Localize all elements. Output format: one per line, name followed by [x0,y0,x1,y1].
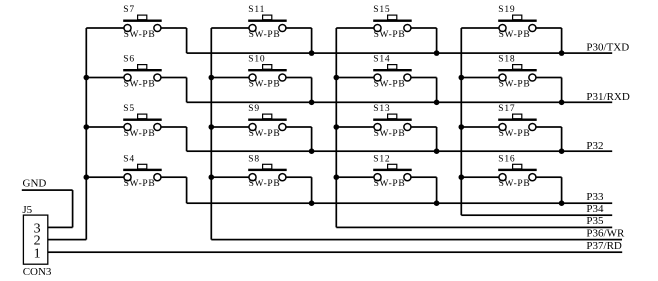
wire column 1 bus [85,28,87,240]
svg-text:SW-PB: SW-PB [124,80,156,90]
wire J5 pin 2 lead [48,239,87,241]
svg-text:SW-PB: SW-PB [249,30,281,40]
wire S16 left lead [461,176,499,178]
wire S19 drop to row output [561,28,563,53]
svg-text:S19: S19 [498,5,515,15]
junction column 2 bus / row 2 [209,75,215,81]
svg-text:SW-PB: SW-PB [249,179,281,189]
junction column 2 bus / row 4 [209,174,215,180]
wire S15 right lead [411,27,437,29]
wire J5 pin 3 lead [48,227,73,229]
svg-text:S11: S11 [248,5,265,15]
wire S7 left lead [86,27,124,29]
svg-text:SW-PB: SW-PB [124,179,156,189]
wire S6 left lead [86,77,124,79]
switch S16 SW-PB [498,164,537,180]
svg-text:SW-PB: SW-PB [499,30,531,40]
switch S17 SW-PB [498,114,537,130]
wire S14 drop to row output [436,78,438,103]
switch S15 SW-PB [373,15,412,31]
svg-text:SW-PB: SW-PB [374,30,406,40]
svg-text:P32: P32 [586,140,603,152]
wire S9 drop to row output [311,127,313,151]
junction column 3 bus / row 4 [334,174,340,180]
wire GND stub [22,189,73,191]
switch S7 SW-PB [123,15,162,31]
junction column 3 bus / row 3 [334,124,340,130]
svg-text:S5: S5 [123,104,135,114]
wire S10 left lead [211,77,249,79]
svg-text:S18: S18 [498,55,515,65]
junction S11 drop / row 1 output [309,50,315,56]
junction column 3 bus / row 2 [334,75,340,81]
svg-text:S17: S17 [498,104,515,114]
wire S19 right lead [536,27,562,29]
wire S7 right lead [161,27,187,29]
wire column 4 bus [460,28,462,215]
wire column 2 bus [210,28,212,240]
switch S12 SW-PB [373,164,412,180]
svg-text:SW-PB: SW-PB [249,80,281,90]
wire S5 right lead [161,126,187,128]
svg-text:S13: S13 [373,104,390,114]
svg-text:S4: S4 [123,154,135,164]
junction S15 drop / row 1 output [434,50,440,56]
wire S13 right lead [411,126,437,128]
switch S18 SW-PB [498,65,537,81]
switch S13 SW-PB [373,114,412,130]
wire S8 left lead [211,176,249,178]
svg-text:SW-PB: SW-PB [124,30,156,40]
junction column 4 bus / row 4 [459,174,465,180]
wire S4 left lead [86,176,124,178]
junction S8 drop / row 4 output [309,200,315,206]
wire S15 left lead [336,27,374,29]
junction S16 drop / row 4 output [559,200,565,206]
wire column 3 bus [335,28,337,227]
wire S10 drop to row output [311,78,313,103]
junction S17 drop / row 3 output [559,148,565,154]
svg-text:S6: S6 [123,55,135,65]
svg-text:CON3: CON3 [23,266,52,278]
wire S8 drop to row output [311,177,313,203]
wire S18 left lead [461,77,499,79]
junction column 1 bus / row 3 [84,124,90,130]
wire S6 drop to row output [186,78,188,103]
wire column 2 output net P36/WR [211,239,622,241]
svg-text:P37/RD: P37/RD [586,240,622,252]
wire S17 drop to row output [561,127,563,151]
wire S11 drop to row output [311,28,313,53]
wire net P37/RD from J5 pin 1 [48,251,622,253]
wire S12 drop to row output [436,177,438,203]
wire S9 right lead [286,126,312,128]
junction S10 drop / row 2 output [309,100,315,106]
svg-text:SW-PB: SW-PB [249,129,281,139]
junction S13 drop / row 3 output [434,148,440,154]
wire column 3 output net P35 [336,227,612,229]
switch S4 SW-PB [123,164,162,180]
wire S13 left lead [336,126,374,128]
wire S6 right lead [161,77,187,79]
svg-text:GND: GND [23,178,47,190]
junction S9 drop / row 3 output [309,148,315,154]
junction S12 drop / row 4 output [434,200,440,206]
svg-text:SW-PB: SW-PB [124,129,156,139]
wire S8 right lead [286,176,312,178]
wire S7 drop to row output [186,28,188,53]
wire row 1 output net P30/TXD [187,52,613,54]
junction column 4 bus / row 3 [459,124,465,130]
switch S19 SW-PB [498,15,537,31]
wire S5 drop to row output [186,127,188,151]
svg-text:P35: P35 [586,215,604,227]
junction S19 drop / row 1 output [559,50,565,56]
svg-text:SW-PB: SW-PB [499,80,531,90]
wire row 2 output net P31/RXD [187,101,613,103]
svg-text:1: 1 [34,246,41,261]
wire S9 left lead [211,126,249,128]
wire column 4 output net P34 [461,214,612,216]
svg-text:S10: S10 [248,55,265,65]
wire S12 right lead [411,176,437,178]
wire S18 drop to row output [561,78,563,103]
wire S16 right lead [536,176,562,178]
svg-text:P33: P33 [586,191,604,203]
wire row 3 output net P32 [187,150,613,152]
svg-text:SW-PB: SW-PB [499,129,531,139]
wire S4 drop to row output [186,177,188,203]
wire S14 right lead [411,77,437,79]
svg-text:SW-PB: SW-PB [374,129,406,139]
svg-text:P34: P34 [586,203,604,215]
svg-text:S16: S16 [498,154,515,164]
wire S17 left lead [461,126,499,128]
junction S14 drop / row 2 output [434,100,440,106]
switch S11 SW-PB [248,15,287,31]
svg-text:S15: S15 [373,5,390,15]
wire S11 left lead [211,27,249,29]
wire GND to pin 3 [72,190,74,227]
wire S13 drop to row output [436,127,438,151]
switch S10 SW-PB [248,65,287,81]
junction column 1 bus / row 4 [84,174,90,180]
switch S14 SW-PB [373,65,412,81]
svg-text:SW-PB: SW-PB [499,179,531,189]
junction column 1 bus / row 2 [84,75,90,81]
wire S17 right lead [536,126,562,128]
svg-text:SW-PB: SW-PB [374,80,406,90]
svg-text:P30/TXD: P30/TXD [586,42,629,54]
wire S18 right lead [536,77,562,79]
switch S9 SW-PB [248,114,287,130]
wire S19 left lead [461,27,499,29]
junction column 4 bus / row 2 [459,75,465,81]
junction column 2 bus / row 3 [209,124,215,130]
wire S11 right lead [286,27,312,29]
wire S15 drop to row output [436,28,438,53]
junction S18 drop / row 2 output [559,100,565,106]
svg-text:S9: S9 [248,104,260,114]
wire S12 left lead [336,176,374,178]
svg-text:S8: S8 [248,154,260,164]
svg-text:P36/WR: P36/WR [586,227,625,239]
svg-text:S12: S12 [373,154,390,164]
connector J5 body [23,215,47,264]
svg-text:P31/RXD: P31/RXD [586,91,629,103]
svg-text:S14: S14 [373,55,390,65]
svg-text:S7: S7 [123,5,135,15]
switch S5 SW-PB [123,114,162,130]
wire S14 left lead [336,77,374,79]
svg-text:SW-PB: SW-PB [374,179,406,189]
wire S4 right lead [161,176,187,178]
switch S6 SW-PB [123,65,162,81]
switch S8 SW-PB [248,164,287,180]
wire S16 drop to row output [561,177,563,203]
wire row 4 output net P33 [187,202,613,204]
svg-text:J5: J5 [22,204,32,216]
wire S5 left lead [86,126,124,128]
wire S10 right lead [286,77,312,79]
